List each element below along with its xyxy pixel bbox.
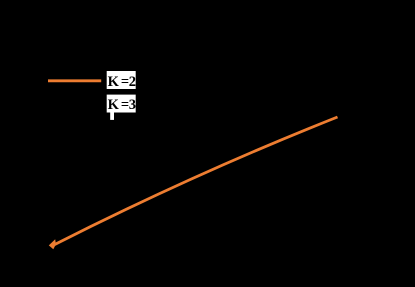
svg-text:K =2: K =2 (108, 74, 136, 90)
curve K=2 (55, 117, 338, 245)
legend box K=2 (107, 71, 136, 89)
svg-text:K =3: K =3 (108, 97, 136, 113)
legend tick (110, 113, 114, 120)
legend box K=3 (107, 95, 136, 113)
arrowhead (49, 239, 56, 249)
legend swatch K=2 (48, 79, 101, 82)
